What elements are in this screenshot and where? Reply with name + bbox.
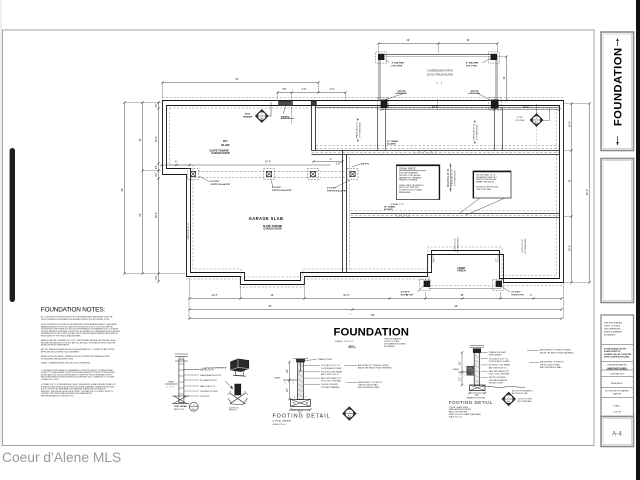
svg-text:(TYP DIMENSION): (TYP DIMENSION): [359, 122, 361, 138]
svg-text:1/2"x10 A.B.'S @ 72" O.C.: 1/2"x10 A.B.'S @ 72" O.C.: [321, 364, 341, 367]
footing width dim: [470, 392, 486, 394]
footing dashes under porch + bottom-right wall: [427, 285, 564, 287]
svg-text:24": 24": [285, 369, 289, 373]
top dim 32ft: [163, 82, 319, 84]
left dim line C segments: [158, 103, 160, 282]
svg-text:2'0"X2'0": 2'0"X2'0": [511, 292, 520, 294]
svg-text:AND 2 VERT @ 48" OC: AND 2 VERT @ 48" OC: [489, 366, 508, 369]
svg-text:1/4"=1'-0": 1/4"=1'-0": [344, 341, 354, 343]
crawl space note box 2: [473, 171, 511, 198]
svg-text:AND AT THE ENDS OF EACH SEGMEN: AND AT THE ENDS OF EACH SEGMENT: [540, 351, 575, 354]
svg-text:COMPACTED TO 95%.: COMPACTED TO 95%.: [41, 378, 60, 381]
svg-text:POST DETAIL: POST DETAIL: [174, 405, 188, 408]
svg-text:13': 13': [270, 293, 274, 297]
svg-text:POST BASE 44 (TYP): POST BASE 44 (TYP): [200, 379, 217, 382]
patio stub wall left below top wall: [377, 108, 379, 151]
svg-text:18": 18": [458, 361, 462, 365]
svg-text:REBAR CONTINUOUS: REBAR CONTINUOUS: [476, 180, 495, 183]
svg-text:32': 32': [235, 77, 239, 81]
svg-text:ST/FTG W 4x4 PST: ST/FTG W 4x4 PST: [211, 183, 231, 186]
post footing ST/FTG RV corner: [308, 169, 319, 180]
garage right interior wall: [342, 151, 344, 273]
svg-text:CONTRACTOR:: CONTRACTOR:: [610, 373, 625, 376]
svg-text:CRAWL SPACE: CRAWL SPACE: [399, 167, 416, 170]
porch slab edge lines: [429, 276, 501, 289]
top dim segments 3-6 / 4-6: [278, 92, 346, 94]
svg-text:FRONT: FRONT: [458, 268, 467, 270]
svg-text:17'-4": 17'-4": [265, 160, 272, 164]
svg-text:ST/FTG PST: ST/FTG PST: [511, 294, 524, 296]
svg-text:4X10: 4X10: [245, 113, 251, 116]
svg-text:THIS PDF DRAWING: THIS PDF DRAWING: [604, 322, 623, 325]
left edge faint line: [0, 0, 2, 447]
left dim line A 34ft: [124, 103, 126, 274]
porch post right: [493, 280, 504, 291]
svg-text:AND WITHIN 8" OF THE TOP: AND WITHIN 8" OF THE TOP: [358, 381, 383, 384]
svg-text:(TYP DIMENSION): (TYP DIMENSION): [525, 238, 527, 254]
treated plate on top: [297, 359, 305, 362]
svg-text:AND WITHIN 12" OF EACH CORNER: AND WITHIN 12" OF EACH CORNER: [358, 364, 389, 367]
svg-text:HANDCRAFT HOMES: HANDCRAFT HOMES: [607, 367, 627, 370]
svg-text:GRADE: GRADE: [453, 368, 460, 371]
foundation inner wall outline: [167, 106, 560, 281]
svg-text:ST/FTG W 4x4 PST: ST/FTG W 4x4 PST: [272, 189, 292, 192]
insulation block: [467, 366, 474, 375]
svg-text:14': 14': [138, 138, 142, 142]
post detail: 3D post base: [235, 384, 241, 395]
svg-text:SPACE AREA: SPACE AREA: [399, 191, 411, 194]
svg-text:14': 14': [567, 179, 571, 183]
svg-text:USE DIMENSIONS: USE DIMENSIONS: [604, 329, 621, 331]
svg-text:GARAGE DOOR: GARAGE DOOR: [263, 228, 282, 231]
svg-text:AND 2 VERT @ 48" OC: AND 2 VERT @ 48" OC: [321, 373, 340, 376]
svg-text:AND WITHIN 12" OF EACH CORNER: AND WITHIN 12" OF EACH CORNER: [540, 349, 571, 352]
footing dashed inside outline: [170, 108, 557, 277]
svg-text:REDESIGNED BY THE STRUCTURAL E: REDESIGNED BY THE STRUCTURAL ENGINEER.: [41, 335, 81, 338]
svg-text:BATS. VERT. BARS (TYP.): BATS. VERT. BARS (TYP.): [321, 377, 342, 380]
crawl footing pad: [470, 385, 486, 391]
svg-text:PSI REQUIRES SPECIAL INSPECTIO: PSI REQUIRES SPECIAL INSPECTIONS.: [41, 357, 74, 360]
svg-text:SCALE 1/2"=1'-0": SCALE 1/2"=1'-0": [273, 423, 288, 426]
svg-text:6 MIL VAPOR BARRIER: 6 MIL VAPOR BARRIER: [489, 379, 508, 382]
svg-text:4x4 POST INTO PIER BLOCK: 4x4 POST INTO PIER BLOCK: [203, 367, 227, 369]
leader to pier block: [184, 367, 228, 370]
svg-text:4x4 PST: 4x4 PST: [361, 163, 370, 166]
svg-text:GIVEN IN DRAWING: GIVEN IN DRAWING: [604, 331, 622, 334]
svg-text:80': 80': [371, 313, 375, 317]
bottom dim line 2: [190, 309, 562, 311]
svg-text:SPACING AT 32: SPACING AT 32: [446, 168, 450, 187]
detail marker 2/A-4 right: [530, 114, 543, 127]
detail marker 2/A-4 garage detail: [343, 407, 357, 421]
svg-text:SLAB: SLAB: [221, 143, 230, 147]
svg-text:SPACING AT 32" OC: SPACING AT 32" OC: [473, 123, 476, 141]
svg-text:(TYP DIMENSION): (TYP DIMENSION): [457, 237, 459, 253]
RV slab right interior wall: [311, 106, 313, 151]
svg-text:19': 19': [406, 38, 410, 42]
title block: info box: [601, 315, 634, 417]
svg-text:14'-4": 14'-4": [523, 105, 530, 109]
svg-text:STEM W 32" OC: STEM W 32" OC: [455, 238, 457, 252]
svg-text:A HAND IN PART OF: A HAND IN PART OF: [604, 350, 620, 353]
svg-text:TREATED PLATE: TREATED PLATE: [318, 358, 333, 361]
svg-text:ACCESS: ACCESS: [387, 143, 396, 146]
patio post bottom-left on wall: [378, 98, 389, 110]
svg-text:18": 18": [285, 388, 289, 392]
4x10 header bar on wall: [279, 101, 293, 105]
svg-text:PIER FTG: PIER FTG: [229, 410, 237, 412]
patio center dots: [437, 83, 438, 84]
svg-text:1'-0": 1'-0": [335, 162, 340, 166]
svg-text:46': 46': [454, 304, 458, 308]
top plates: [473, 349, 481, 353]
svg-text:OF FROM EACH CORNER: OF FROM EACH CORNER: [321, 367, 343, 370]
garage footing pad: [290, 399, 310, 406]
svg-text:FOOTING: FOOTING: [515, 120, 525, 122]
svg-text:IN DRAWING: IN DRAWING: [384, 345, 396, 348]
post detail: post column: [179, 359, 184, 403]
title block: FOUNDATION tab: [601, 32, 634, 151]
post detail: footing X: [172, 396, 189, 403]
svg-text:12"X8": 12"X8": [517, 117, 523, 119]
left black scrollbar: [10, 148, 15, 302]
svg-text:4'-6": 4'-6": [329, 87, 334, 91]
svg-text:4'-0": 4'-0": [434, 258, 436, 262]
right dim line segments: [571, 104, 573, 283]
patio post bottom-right on wall: [488, 98, 501, 111]
svg-text:GARAGE DOOR: GARAGE DOOR: [211, 152, 230, 155]
svg-text:LICENSED. WILL BE CONSULTED: LICENSED. WILL BE CONSULTED: [604, 354, 632, 356]
svg-text:A-4: A-4: [612, 431, 622, 438]
svg-text:#4 REBAR 12" OC: #4 REBAR 12" OC: [390, 203, 405, 206]
detail marker 1/A-4 crawl detail: [502, 392, 516, 406]
svg-text:2'3": 2'3": [154, 165, 158, 169]
svg-text:FTG TYPE: FTG TYPE: [466, 65, 477, 67]
crawl space note box 1: [396, 165, 439, 200]
svg-text:THE BOTTOM OF WALL: THE BOTTOM OF WALL: [540, 363, 560, 366]
svg-text:W/SILL SEALER: W/SILL SEALER: [489, 354, 502, 357]
svg-text:2'0"X2'0": 2'0"X2'0": [327, 188, 336, 190]
svg-text:19': 19': [466, 38, 470, 42]
leader from box2 to pony wall: [466, 198, 505, 215]
svg-text:SPACING AT 32" OC: SPACING AT 32" OC: [187, 222, 190, 240]
svg-text:AND CENTERED IN WALL: AND CENTERED IN WALL: [358, 386, 380, 389]
crawl vertical dim between boxes: [450, 163, 452, 192]
svg-text:11'-3": 11'-3": [211, 293, 217, 297]
svg-text:HOUSE DESIGNS / BIG SKY: HOUSE DESIGNS / BIG SKY: [604, 349, 627, 351]
left vertical dims: [289, 362, 291, 380]
svg-text:4x4 PST: 4x4 PST: [178, 357, 184, 359]
svg-text:FOOTING DETAIL: FOOTING DETAIL: [449, 400, 493, 405]
svg-text:W/2 HORIZ. CONT. REBAR: W/2 HORIZ. CONT. REBAR: [489, 364, 511, 367]
right black edge strip: [636, 0, 640, 480]
svg-text:4" DIA PIER: 4" DIA PIER: [392, 62, 405, 65]
svg-text:A-4: A-4: [348, 414, 351, 417]
crawl access hatch: [413, 151, 437, 155]
left dim: [461, 353, 463, 373]
svg-text:HEADER: HEADER: [243, 115, 253, 118]
svg-text:(TYP DIMENSION): (TYP DIMENSION): [476, 124, 478, 140]
svg-text:35': 35': [268, 304, 272, 308]
patio outline: [379, 55, 497, 101]
svg-text:Coeur d'Alene MLS: Coeur d'Alene MLS: [2, 450, 121, 465]
svg-text:ST/FTG W 4x4 PST: ST/FTG W 4x4 PST: [327, 189, 347, 192]
svg-text:10': 10': [502, 76, 506, 80]
svg-text:PAD 10"X10": PAD 10"X10": [174, 408, 185, 411]
svg-text:12'-4": 12'-4": [567, 245, 571, 252]
footing dashed line outside top wall: [162, 97, 564, 99]
svg-text:BEARING GROUND: BEARING GROUND: [291, 409, 310, 412]
svg-text:2500 PSI CONCRETE: 2500 PSI CONCRETE: [489, 377, 507, 379]
svg-text:SPACING AT 32" OC: SPACING AT 32" OC: [451, 169, 454, 187]
svg-text:PIER BLOCK FTG: PIER BLOCK FTG: [200, 369, 215, 371]
svg-text:APPROVED BY A LICENSED SOILS E: APPROVED BY A LICENSED SOILS ENGINEER.: [41, 350, 80, 353]
post footing ST/FTG garage middle: [264, 169, 275, 180]
svg-text:BEARING GROUND: BEARING GROUND: [467, 396, 486, 399]
svg-text:A-4: A-4: [535, 121, 538, 124]
post detail: leader lines + notes: [184, 369, 199, 371]
svg-text:COVERED BACK PATIO: COVERED BACK PATIO: [427, 70, 453, 73]
crawl bottom hatch: [395, 213, 411, 218]
svg-text:18" CRAWL: 18" CRAWL: [387, 140, 399, 143]
svg-text:ACCESS: ACCESS: [384, 208, 393, 211]
svg-text:RESIDENCE.: RESIDENCE.: [611, 383, 624, 385]
right dim line full: [589, 104, 591, 283]
svg-text:GRADE #4 REBAR MINIMUM (UNLESS: GRADE #4 REBAR MINIMUM (UNLESS NOTED OTH…: [41, 362, 90, 365]
svg-text:BE BELOW FROST PENETRATION.: BE BELOW FROST PENETRATION.: [41, 344, 70, 347]
svg-text:12": 12": [458, 377, 462, 381]
svg-text:4'-0": 4'-0": [496, 258, 498, 262]
svg-text:3'6": 3'6": [282, 87, 286, 91]
svg-text:GARAGE SLAB: GARAGE SLAB: [249, 216, 284, 221]
patio post top-right: [488, 52, 499, 63]
svg-text:A-4: A-4: [507, 400, 510, 403]
svg-text:18': 18': [460, 293, 464, 297]
svg-text:AND CENTERED IN WALL: AND CENTERED IN WALL: [540, 366, 562, 369]
interior dim 24-4 / 14-4: [382, 109, 560, 111]
patio stub wall right below top wall: [494, 108, 496, 151]
svg-text:1/2"x6" FOOTING: 1/2"x6" FOOTING: [518, 399, 533, 401]
junction post embedded in top wall: [311, 101, 316, 106]
svg-text:CONCRETE FOOTING: CONCRETE FOOTING: [200, 391, 218, 393]
svg-text:2'3": 2'3": [154, 275, 158, 279]
bottom dim line 3 80ft: [190, 318, 562, 320]
porch post left: [419, 280, 430, 291]
svg-text:NOT USE LEFT OF DRAWING: NOT USE LEFT OF DRAWING: [605, 390, 629, 393]
ground squiggle: [482, 386, 525, 387]
svg-text:10'-4": 10'-4": [343, 293, 350, 297]
svg-text:IN AN RFE: IN AN RFE: [613, 392, 622, 395]
post detail: grade line: [165, 383, 178, 385]
corner dim near garage right wall: [314, 161, 343, 163]
svg-text:SCALE 1/2"=1'-0": SCALE 1/2"=1'-0": [449, 415, 463, 418]
svg-text:8"X16" CONC. STEM WALL: 8"X16" CONC. STEM WALL: [489, 373, 510, 376]
svg-text:TREATED 2X6 PLATE: TREATED 2X6 PLATE: [489, 351, 507, 354]
svg-text:APPX: APPX: [349, 345, 355, 348]
svg-text:18'-2": 18'-2": [154, 212, 158, 219]
inner second line top wall (thick wall): [316, 107, 560, 109]
crawl footing detail: stem wall: [474, 353, 480, 386]
svg-text:36'-8": 36'-8": [585, 189, 589, 196]
svg-text:DESIGNER/DRAFTER: DESIGNER/DRAFTER: [607, 364, 627, 367]
footing dashed outside bottom: [186, 279, 427, 287]
svg-text:THE BOTTOM OF WALL: THE BOTTOM OF WALL: [358, 384, 378, 387]
svg-text:GRADE BEAM W/ 4X4 PST: GRADE BEAM W/ 4X4 PST: [200, 374, 221, 377]
bottom dim line 1: [190, 298, 562, 300]
svg-text:FOUNDATION: FOUNDATION: [613, 47, 625, 126]
svg-text:PLAN #: PLAN #: [613, 405, 621, 408]
svg-text:SCALE:: SCALE:: [335, 340, 343, 343]
anchor bolt: [299, 362, 301, 372]
svg-text:FOOTING DETAIL: FOOTING DETAIL: [273, 414, 331, 420]
svg-text:2'3": 2'3": [154, 172, 158, 176]
svg-text:W/8" STEM WALL: W/8" STEM WALL: [518, 400, 533, 403]
foundation outer wall outline: [163, 101, 564, 285]
patio top dimension 19/19: [379, 43, 498, 45]
svg-text:10'-4": 10'-4": [567, 121, 571, 128]
svg-text:12'-2": 12'-2": [154, 136, 158, 143]
svg-text:6 MIL VAPOR BARRIER: 6 MIL VAPOR BARRIER: [321, 386, 340, 389]
svg-text:IS NOT TO SCALE: IS NOT TO SCALE: [604, 325, 621, 328]
svg-text:34': 34': [120, 188, 124, 192]
svg-text:W/2 HORIZ. CONT. REBAR: W/2 HORIZ. CONT. REBAR: [321, 371, 343, 374]
svg-text:SPACING AT 32" OC: SPACING AT 32" OC: [356, 121, 359, 139]
svg-text:1/2"x10 A.B.'S @ 72" O.C.: 1/2"x10 A.B.'S @ 72" O.C.: [489, 357, 509, 360]
svg-text:GROUND COVER: GROUND COVER: [489, 383, 504, 385]
svg-text:THIS FOUNDATION IS DESIGNED FO: THIS FOUNDATION IS DESIGNED FOR MINIMUM …: [41, 318, 111, 321]
svg-text:TAMP 4 GAL JT OF: TAMP 4 GAL JT OF: [200, 385, 215, 388]
post footing ST/FTG garage left: [188, 169, 199, 180]
svg-text:4"X8" CONC. STEM WALL: 4"X8" CONC. STEM WALL: [321, 380, 341, 383]
svg-text:IN DRAWING: IN DRAWING: [604, 334, 616, 337]
title block: empty tall box: [601, 159, 634, 303]
svg-text:GRADE: GRADE: [168, 381, 175, 384]
svg-text:1737 SF: 1737 SF: [613, 412, 622, 414]
svg-text:(TYPICAL GARAGE): (TYPICAL GARAGE): [273, 420, 292, 423]
svg-text:BEFORE ANY AND/OR CONSTRUCTION: BEFORE ANY AND/OR CONSTRUCTION.: [41, 395, 74, 398]
crawl space top wall: [312, 150, 560, 152]
step corner dim 4ft / 17-4: [162, 164, 331, 166]
svg-text:(TYP DIMENSION): (TYP DIMENSION): [454, 170, 456, 186]
svg-text:2'3": 2'3": [154, 103, 158, 107]
svg-text:GRADE: GRADE: [274, 377, 281, 380]
svg-text:UNDER FLOOR AREA: UNDER FLOOR AREA: [399, 179, 418, 182]
garage footing detail: stem wall: [298, 362, 304, 400]
detail marker 1/A-4 at header: [255, 110, 268, 123]
svg-text:24"X24"X10": 24"X24"X10": [200, 396, 210, 398]
svg-text:4" DIA PIER: 4" DIA PIER: [466, 62, 479, 65]
svg-text:22': 22': [138, 213, 142, 217]
svg-text:STEM W 32" OC: STEM W 32" OC: [522, 239, 524, 253]
svg-text:2'0"X2'0": 2'0"X2'0": [272, 187, 281, 189]
crawl space bottom wall (dashed band): [351, 213, 560, 215]
crawl top footing dashed band: [316, 145, 560, 147]
svg-text:AFTER CONSTRUCTION LAWS: AFTER CONSTRUCTION LAWS: [604, 356, 630, 359]
svg-text:BATS. VERT. BARS (TYP.): BATS. VERT. BARS (TYP.): [489, 370, 510, 373]
patio right dimension 10: [506, 57, 508, 101]
svg-text:2'0"X2'0": 2'0"X2'0": [211, 181, 220, 183]
svg-text:THRU PONY WALL: THRU PONY WALL: [476, 188, 491, 191]
left dim line B 14/22: [142, 103, 144, 274]
footing width dims: [290, 409, 310, 411]
post footing ST/FTG garage right: [347, 169, 358, 180]
svg-text:BELOW FROST LINE: BELOW FROST LINE: [512, 393, 528, 395]
svg-text:2500 PSI CONCRETE: 2500 PSI CONCRETE: [321, 384, 339, 386]
patio post top-left: [376, 52, 387, 63]
svg-text:OF FROM EACH CORNER: OF FROM EACH CORNER: [489, 360, 511, 363]
svg-text:FOUNDATION: FOUNDATION: [334, 327, 409, 339]
svg-text:AND AT THE ENDS OF EACH SEGMEN: AND AT THE ENDS OF EACH SEGMENT: [358, 367, 393, 370]
svg-text:4'-6": 4'-6": [301, 87, 306, 91]
title block: A-4 box: [601, 417, 634, 447]
svg-text:20'X10' (ITALIAN SLATE): 20'X10' (ITALIAN SLATE): [427, 73, 453, 76]
svg-text:FTG TYPE: FTG TYPE: [392, 65, 403, 67]
svg-text:PORCH: PORCH: [457, 271, 466, 273]
post detail: circle marker 3/A-4: [189, 402, 198, 411]
svg-text:FOUNDATION NOTES:: FOUNDATION NOTES:: [41, 307, 105, 314]
post detail: 3D pier block: [231, 359, 249, 372]
beam dashed lines between posts (RV/garage): [191, 171, 347, 173]
svg-text:A-4: A-4: [260, 117, 263, 120]
svg-text:AND WITHIN 8" OF THE TOP: AND WITHIN 8" OF THE TOP: [540, 361, 565, 364]
